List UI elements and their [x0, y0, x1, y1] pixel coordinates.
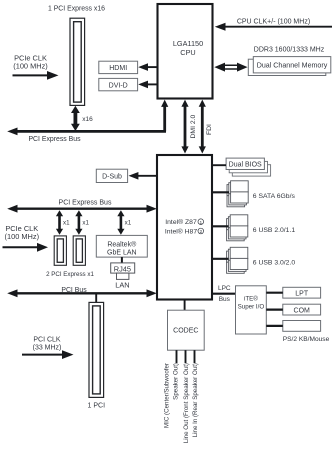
svg-text:(33 MHz): (33 MHz): [33, 345, 62, 352]
svg-text:HDMI: HDMI: [109, 65, 127, 72]
svg-text:(100 MHz): (100 MHz): [5, 232, 40, 241]
box: iTE Super I/O: [236, 286, 267, 334]
slot: PCI Express x16: [70, 18, 85, 105]
box: D-Sub: [96, 169, 127, 182]
wire: PCH to Dual BIOS: [212, 164, 226, 166]
svg-text:iTE®: iTE®: [244, 295, 258, 302]
svg-text:Realtek®: Realtek®: [107, 241, 137, 249]
svg-text:LAN: LAN: [115, 280, 129, 289]
wire: DMI 2.0 double arrow CPU to PCH: [181, 100, 188, 154]
svg-text:(100 MHz): (100 MHz): [13, 61, 48, 70]
svg-text:2 PCI Express x1: 2 PCI Express x1: [46, 271, 94, 278]
connector stack: 6 SATA 6Gb/s: [227, 181, 248, 207]
wire: CODEC audio line 1: [176, 350, 178, 363]
wire: x16 double arrow slot to bus: [71, 106, 80, 131]
box: Dual Channel Memory (stacked): [248, 57, 330, 76]
wire: CODEC audio line 3: [194, 350, 196, 363]
box: LPT: [283, 287, 321, 298]
wire: PCH to D-Sub arrow: [129, 172, 158, 180]
box: Realtek GbE LAN: [96, 235, 147, 257]
wire: CPU to DVI-D arrow: [138, 81, 157, 89]
svg-text:6 USB 3.0/2.0: 6 USB 3.0/2.0: [253, 259, 296, 266]
wire: PCI Express bus (middle) both-end arrows: [7, 205, 157, 213]
svg-text:PCI Express Bus: PCI Express Bus: [59, 200, 112, 207]
wire: PCH to CODEC: [184, 300, 186, 311]
svg-text:CPU: CPU: [180, 48, 195, 57]
svg-text:LGA1150: LGA1150: [173, 39, 203, 48]
svg-text:CPU CLK+/- (100 MHz): CPU CLK+/- (100 MHz): [237, 19, 310, 26]
wire: PCI bus both-end arrows: [7, 289, 157, 297]
svg-text:MIC (Center/Subwoofer: MIC (Center/Subwoofer: [163, 363, 170, 428]
wire: Super I/O to PS/2: [266, 325, 283, 327]
svg-text:x1: x1: [63, 220, 70, 227]
svg-text:Intel® H87: Intel® H87: [165, 227, 197, 235]
svg-text:FDI: FDI: [206, 124, 213, 135]
svg-text:DVI-D: DVI-D: [109, 82, 128, 89]
wire: PCH to SATA: [212, 191, 229, 193]
svg-text:x16: x16: [82, 116, 93, 123]
wire: CPU to HDMI arrow: [138, 63, 157, 71]
svg-text:Dual BIOS: Dual BIOS: [229, 162, 262, 169]
svg-text:Bus: Bus: [219, 296, 231, 303]
wire: x1 double arrow to LAN: [117, 210, 124, 235]
wire: PCI CLK arrow: [22, 350, 74, 359]
box: HDMI: [99, 61, 138, 73]
svg-text:Line Out (Front Speaker Out): Line Out (Front Speaker Out): [183, 363, 190, 443]
wire: CPU to memory double arrow: [214, 63, 247, 72]
connector stack: 6 USB 2.0/1.1: [227, 215, 248, 241]
svg-text:CODEC: CODEC: [173, 328, 198, 335]
svg-text:x1: x1: [82, 220, 89, 227]
PCH U2: Intel Z87/H87 chipset: [157, 155, 212, 300]
wire: Super I/O to COM: [266, 309, 283, 311]
svg-text:6 USB 2.0/1.1: 6 USB 2.0/1.1: [253, 227, 296, 234]
connector: RJ45 jack: [111, 263, 135, 280]
wire: PCI Express bus (top) with left arrow and riser into CPU: [7, 100, 168, 136]
wire: x1 double arrow to slot 2: [75, 210, 82, 235]
wire: CODEC audio line 2: [185, 350, 187, 363]
slot: PCI Express x1 #2: [73, 236, 85, 265]
svg-text:Dual Channel Memory: Dual Channel Memory: [257, 62, 328, 70]
wire: PCI bus to PCI slot: [95, 294, 97, 303]
box: Dual BIOS (stacked): [226, 158, 271, 176]
slot: PCI Express x1 #1: [54, 236, 66, 265]
svg-text:PCI CLK: PCI CLK: [33, 337, 61, 344]
svg-text:2: 2: [199, 229, 202, 235]
wire: CPU CLK arrow into CPU: [215, 23, 332, 31]
svg-text:Super I/O: Super I/O: [238, 303, 265, 310]
wire: PCH to Super I/O (LPC bus): [212, 293, 236, 295]
svg-text:1: 1: [199, 220, 202, 226]
box: COM: [283, 304, 321, 315]
svg-text:Line In (Rear Speaker Out): Line In (Rear Speaker Out): [192, 363, 199, 437]
CPU U1: LGA1150: [158, 4, 213, 99]
svg-text:x1: x1: [125, 220, 132, 227]
svg-text:6 SATA 6Gb/s: 6 SATA 6Gb/s: [253, 193, 296, 200]
wire: FDI double arrow CPU to PCH: [199, 100, 206, 154]
box: CODEC: [168, 310, 205, 350]
wire: PCIe CLK arrow (top): [13, 71, 59, 80]
svg-text:LPC: LPC: [218, 285, 231, 292]
svg-text:RJ45: RJ45: [114, 264, 131, 273]
svg-text:Speaker Out): Speaker Out): [172, 363, 179, 400]
svg-text:PS/2 KB/Mouse: PS/2 KB/Mouse: [283, 336, 330, 343]
svg-text:PCI Bus: PCI Bus: [61, 287, 87, 294]
connector stack: 6 USB 3.0/2.0: [227, 247, 248, 273]
wire: PCH to USB3: [212, 258, 229, 260]
svg-text:Intel® Z87: Intel® Z87: [165, 218, 197, 226]
slot: PCI: [89, 302, 104, 397]
wire: Realtek to RJ45: [121, 257, 123, 263]
svg-text:D-Sub: D-Sub: [102, 174, 122, 181]
svg-text:1 PCI: 1 PCI: [88, 403, 106, 410]
box: PS/2 connector: [283, 321, 321, 332]
svg-text:1 PCI Express x16: 1 PCI Express x16: [48, 5, 105, 12]
wire: PCH to USB2: [212, 225, 229, 227]
wire: PCIe CLK arrow (middle): [3, 243, 49, 252]
svg-text:DMI 2.0: DMI 2.0: [190, 114, 197, 138]
wire: x1 double arrow to slot 1: [56, 210, 63, 235]
box: DVI-D: [99, 78, 138, 90]
svg-text:DDR3 1600/1333 MHz: DDR3 1600/1333 MHz: [254, 46, 325, 53]
svg-text:LPT: LPT: [295, 291, 309, 298]
svg-text:GbE LAN: GbE LAN: [107, 250, 137, 257]
wire: Super I/O to LPT: [266, 292, 283, 294]
svg-text:PCI Express Bus: PCI Express Bus: [28, 136, 81, 143]
svg-text:COM: COM: [294, 308, 311, 315]
